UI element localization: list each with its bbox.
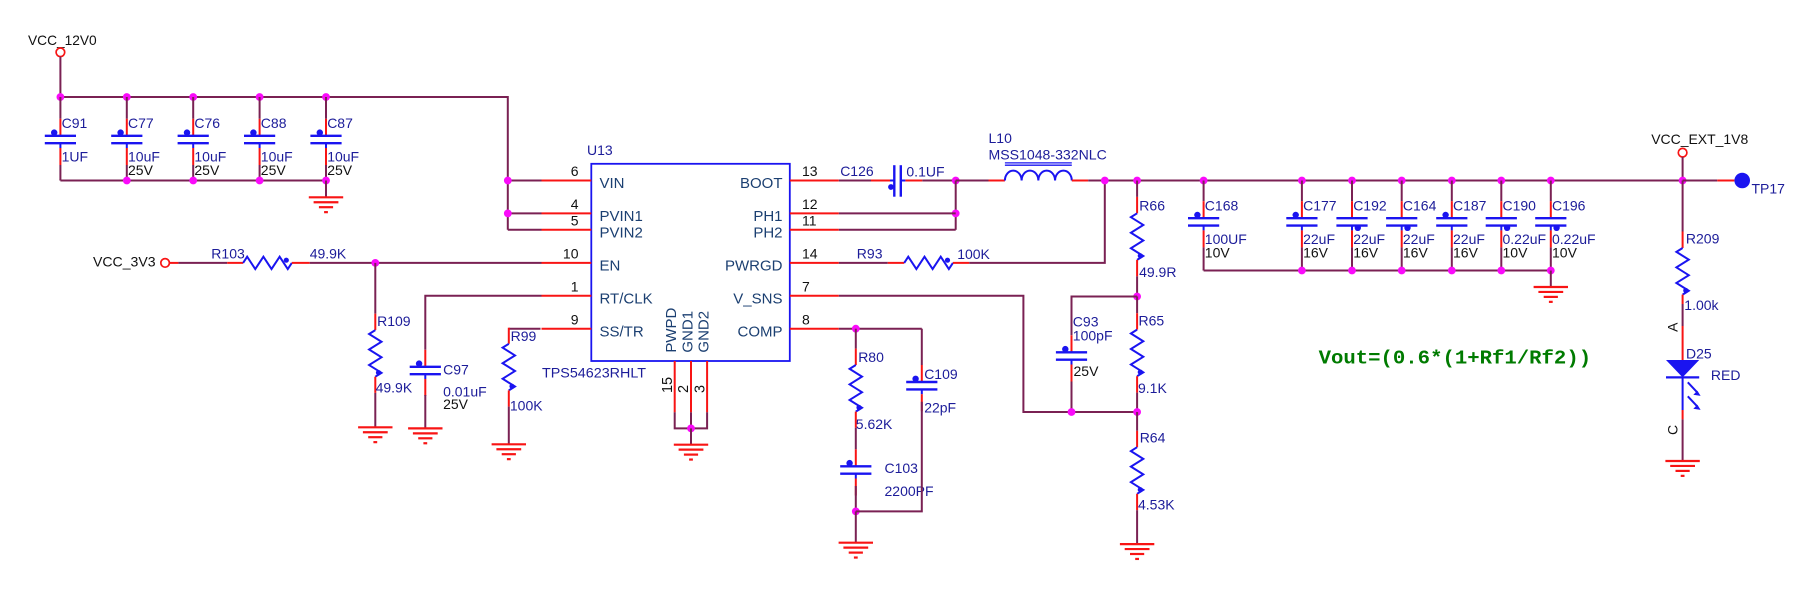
svg-text:16V: 16V	[1303, 244, 1329, 260]
wire C164 bottom lead	[1401, 247, 1403, 270]
capacitor C126 0.1UF	[871, 180, 890, 182]
junction EN node	[371, 259, 379, 267]
svg-text:6: 6	[571, 163, 579, 179]
capacitor C192	[1351, 201, 1353, 218]
svg-text:14: 14	[802, 246, 818, 262]
svg-text:12: 12	[802, 196, 818, 212]
junction C103/C109	[852, 508, 860, 516]
junction PVIN1 tap	[504, 210, 512, 218]
svg-text:9.1K: 9.1K	[1138, 380, 1167, 396]
svg-text:C103: C103	[885, 460, 919, 476]
wire COMP	[839, 328, 922, 330]
wire C87 top lead	[325, 97, 327, 119]
junction VIN tap	[504, 177, 512, 185]
resistor R209 1.00k	[1682, 181, 1684, 232]
pin 4 PVIN1	[542, 212, 592, 214]
pin 9 SS/TR	[542, 328, 592, 330]
junction bottom bus	[256, 177, 264, 185]
junction C187 top	[1448, 177, 1456, 185]
junction bottom bus	[322, 177, 330, 185]
svg-text:VCC_12V0: VCC_12V0	[28, 32, 97, 48]
svg-text:10V: 10V	[1205, 244, 1231, 260]
wire SS/TR to R99	[509, 328, 541, 330]
svg-text:GND1: GND1	[679, 311, 696, 353]
svg-text:R66: R66	[1139, 197, 1165, 213]
wire C103 to gnd node	[855, 486, 857, 511]
svg-text:49.9R: 49.9R	[1139, 264, 1176, 280]
svg-text:2200PF: 2200PF	[885, 483, 934, 499]
pin 15 PWPD	[674, 361, 676, 412]
svg-text:PVIN2: PVIN2	[600, 225, 643, 242]
wire C91 bottom lead	[59, 165, 61, 181]
wire C190 bottom lead	[1500, 247, 1502, 270]
svg-text:10: 10	[563, 246, 579, 262]
svg-text:25V: 25V	[128, 162, 154, 178]
inductor L10 MSS1048-332NLC	[989, 180, 1005, 182]
svg-text:PVIN1: PVIN1	[600, 208, 643, 225]
capacitor C164	[1401, 201, 1403, 218]
svg-text:2: 2	[676, 385, 692, 393]
wire R103 to EN	[310, 262, 542, 264]
wire to ground	[325, 181, 327, 198]
svg-text:GND2: GND2	[696, 311, 713, 353]
svg-text:25V: 25V	[1074, 363, 1100, 379]
svg-text:V_SNS: V_SNS	[733, 291, 782, 308]
svg-text:C97: C97	[443, 361, 469, 377]
svg-text:100K: 100K	[957, 246, 990, 262]
svg-text:C164: C164	[1403, 197, 1437, 213]
resistor R66 49.9R	[1136, 181, 1138, 197]
capacitor C190	[1500, 201, 1502, 218]
ground C97	[408, 427, 442, 429]
pin 10 EN	[542, 262, 592, 264]
wire top bus	[59, 96, 507, 98]
ground COMP network	[839, 542, 873, 544]
capacitor C91	[59, 119, 61, 136]
junction GND pins	[687, 425, 695, 433]
svg-text:VCC_EXT_1V8: VCC_EXT_1V8	[1651, 131, 1748, 147]
junction feedback node	[1133, 293, 1141, 301]
svg-text:C192: C192	[1353, 197, 1387, 213]
svg-text:25V: 25V	[194, 162, 220, 178]
wire V_SNS to divider	[839, 296, 1137, 412]
svg-text:C177: C177	[1303, 197, 1337, 213]
wire PH to L10	[956, 180, 989, 182]
svg-text:1: 1	[571, 278, 579, 294]
wire C91 top lead	[59, 97, 61, 119]
junction bottom bus	[123, 177, 131, 185]
resistor R109 49.9K	[374, 263, 376, 314]
svg-text:10V: 10V	[1503, 244, 1529, 260]
svg-text:R93: R93	[857, 245, 883, 261]
svg-text:R80: R80	[858, 349, 884, 365]
wire C164 top lead	[1401, 181, 1403, 202]
svg-text:PWRGD: PWRGD	[725, 258, 783, 275]
junction COMP	[852, 325, 860, 333]
svg-text:RT/CLK: RT/CLK	[600, 291, 653, 308]
capacitor C109 22pF	[921, 329, 923, 365]
wire gnd bus to ground	[1550, 271, 1552, 288]
svg-text:C190: C190	[1503, 197, 1537, 213]
wire L10 to output bus	[1088, 180, 1682, 182]
junction gnd bus	[1448, 267, 1456, 275]
junction C192 top	[1348, 177, 1356, 185]
svg-text:16V: 16V	[1403, 244, 1429, 260]
svg-text:L10: L10	[989, 130, 1013, 146]
svg-text:R65: R65	[1139, 313, 1165, 329]
junction C168 top	[1200, 177, 1208, 185]
ground U13	[674, 444, 708, 446]
junction gnd bus	[1298, 267, 1306, 275]
svg-text:15: 15	[660, 377, 676, 393]
svg-text:R99: R99	[511, 328, 537, 344]
pin 5 PVIN2	[542, 229, 592, 231]
pin 12 PH1	[790, 212, 839, 214]
svg-text:Vout=(0.6*(1+Rf1/Rf2)): Vout=(0.6*(1+Rf1/Rf2))	[1319, 348, 1592, 370]
svg-text:R64: R64	[1140, 429, 1166, 445]
wire bus down to PVIN	[507, 96, 509, 230]
capacitor C168	[1203, 201, 1205, 218]
wire R209 to D25	[1682, 304, 1684, 326]
svg-text:5.62K: 5.62K	[856, 416, 893, 432]
pin 13 BOOT	[790, 180, 839, 182]
wire C196 bottom lead	[1550, 247, 1552, 270]
pin 8 COMP	[790, 328, 839, 330]
svg-text:COMP: COMP	[738, 323, 783, 340]
wire R66 to node A	[1136, 276, 1138, 296]
wire VCC_EXT down	[1682, 157, 1684, 181]
junction VCC_EXT	[1679, 177, 1687, 185]
svg-text:R103: R103	[211, 245, 245, 261]
wire BOOT to C126	[839, 180, 871, 182]
wire C88 top lead	[259, 97, 261, 119]
op-amp U13 TPS54623RHLT body	[591, 164, 790, 361]
ground R109	[358, 426, 392, 428]
wire output cap ground bus	[1204, 270, 1551, 272]
svg-text:PH2: PH2	[753, 225, 782, 242]
wire D25 cathode	[1682, 410, 1684, 419]
svg-text:TP17: TP17	[1752, 181, 1786, 197]
pin 1 RT/CLK	[542, 295, 592, 297]
junction R66 top	[1133, 177, 1141, 185]
junction C190 top	[1497, 177, 1505, 185]
resistor R93 100K	[888, 262, 904, 264]
wire PWRGD to R93	[839, 262, 888, 264]
capacitor	[1071, 335, 1073, 352]
resistor R64 4.53K	[1136, 412, 1138, 431]
power port VCC_12V0	[56, 48, 65, 57]
svg-text:MSS1048-332NLC: MSS1048-332NLC	[989, 147, 1107, 163]
svg-text:49.9K: 49.9K	[376, 380, 413, 396]
test point TP17	[1683, 180, 1718, 182]
wire C87 bottom lead	[325, 165, 327, 181]
pin 11 PH2	[790, 229, 839, 231]
pin 7 V_SNS	[790, 295, 839, 297]
resistor R80 5.62K	[855, 329, 857, 349]
resistor R99 100K	[508, 328, 510, 344]
svg-text:49.9K: 49.9K	[310, 246, 347, 262]
wire C76 top lead	[192, 97, 194, 119]
svg-text:4.53K: 4.53K	[1138, 496, 1175, 512]
svg-text:D25: D25	[1686, 345, 1712, 361]
power port VCC_EXT_1V8	[1678, 148, 1687, 157]
svg-text:C109: C109	[924, 366, 958, 382]
wire R64 to ground	[1136, 510, 1138, 544]
wire C187 top lead	[1451, 181, 1453, 202]
junction top bus	[189, 93, 197, 101]
svg-text:10V: 10V	[1552, 244, 1578, 260]
capacitor C196	[1550, 201, 1552, 218]
junction R93 pullup	[1101, 177, 1109, 185]
wire C168 bottom lead	[1203, 247, 1205, 270]
svg-text:TPS54623RHLT: TPS54623RHLT	[542, 364, 646, 380]
svg-text:8: 8	[802, 311, 810, 327]
ground R64	[1120, 543, 1154, 545]
svg-text:C88: C88	[261, 115, 287, 131]
svg-text:3: 3	[692, 385, 708, 393]
junction R64 top	[1133, 408, 1141, 416]
wire VCC_12V0 down	[59, 57, 61, 97]
wire to PVIN2 pin	[508, 229, 542, 231]
pin 14 PWRGD	[790, 262, 839, 264]
wire PH vertical	[955, 181, 957, 230]
wire C192 top lead	[1351, 181, 1353, 202]
wire C177 top lead	[1301, 181, 1303, 202]
svg-text:R109: R109	[377, 313, 411, 329]
capacitor	[424, 350, 426, 367]
svg-text:25V: 25V	[443, 396, 469, 412]
junction top bus	[123, 93, 131, 101]
wire C177 bottom lead	[1301, 247, 1303, 270]
wire C109 down	[856, 402, 922, 512]
svg-text:100K: 100K	[510, 397, 543, 413]
wire VCC_3V3 to R103	[169, 262, 178, 264]
wire R65 to bottom row	[1136, 393, 1138, 412]
LED D25 RED	[1666, 360, 1699, 377]
junction PH node top	[952, 177, 960, 185]
junction PH1	[952, 210, 960, 218]
svg-text:4: 4	[571, 196, 579, 212]
wire C187 bottom lead	[1451, 247, 1453, 270]
capacitor C77	[126, 119, 128, 136]
svg-text:C187: C187	[1453, 197, 1487, 213]
svg-text:BOOT: BOOT	[740, 175, 783, 192]
ground R99	[492, 443, 526, 445]
capacitor	[921, 365, 923, 382]
wire C93 down	[1071, 382, 1073, 413]
junction C93 bottom	[1068, 408, 1076, 416]
wire GND pins join	[675, 412, 707, 428]
ground cap bank	[309, 196, 343, 198]
wire to ground	[690, 428, 692, 444]
power port VCC_3V3	[161, 259, 170, 268]
junction gnd bus	[1348, 267, 1356, 275]
svg-text:16V: 16V	[1453, 244, 1479, 260]
resistor R65 9.1K	[1136, 297, 1138, 314]
wire RT/CLK to C97	[425, 296, 541, 350]
wire C126 to PH node	[922, 180, 955, 182]
junction gnd bus	[1497, 267, 1505, 275]
svg-text:C77: C77	[128, 115, 154, 131]
capacitor C88	[259, 119, 261, 136]
wire C77 bottom lead	[126, 165, 128, 181]
svg-text:1UF: 1UF	[62, 148, 88, 164]
svg-text:13: 13	[802, 163, 818, 179]
svg-text:C87: C87	[327, 115, 353, 131]
capacitor	[855, 449, 857, 466]
capacitor C187	[1451, 201, 1453, 218]
svg-text:C: C	[1664, 425, 1680, 435]
wire C77 top lead	[126, 97, 128, 119]
svg-text:22pF: 22pF	[924, 399, 956, 415]
wire C97 to ground	[424, 395, 426, 428]
svg-text:100pF: 100pF	[1073, 328, 1113, 344]
junction top bus	[322, 93, 330, 101]
wire to ground	[855, 511, 857, 542]
svg-text:PWPD: PWPD	[663, 307, 680, 352]
svg-text:11: 11	[802, 212, 817, 228]
svg-text:RED: RED	[1711, 367, 1741, 383]
svg-text:SS/TR: SS/TR	[600, 323, 644, 340]
svg-text:A: A	[1664, 322, 1680, 332]
junction gnd bus	[1547, 267, 1555, 275]
wire R109 to ground	[374, 393, 376, 427]
wire C192 bottom lead	[1351, 247, 1353, 270]
svg-text:1.00k: 1.00k	[1684, 297, 1719, 313]
junction bottom bus	[189, 177, 197, 185]
svg-text:16V: 16V	[1353, 244, 1379, 260]
ground D25	[1665, 460, 1699, 462]
wire C168 top lead	[1203, 181, 1205, 202]
svg-text:R209: R209	[1686, 231, 1720, 247]
wire bottom cap bus	[60, 180, 326, 182]
pin 3 GND2	[706, 361, 708, 412]
wire R93 to output bus	[969, 181, 1105, 263]
capacitor C87	[325, 119, 327, 136]
svg-text:9: 9	[571, 311, 579, 327]
pin 6 VIN	[542, 180, 592, 182]
svg-text:25V: 25V	[327, 162, 353, 178]
svg-text:C168: C168	[1205, 197, 1239, 213]
wire node to C93	[1072, 297, 1138, 336]
wire C190 top lead	[1500, 181, 1502, 202]
svg-text:PH1: PH1	[753, 208, 782, 225]
wire R80 to C103	[855, 428, 857, 450]
junction top bus	[256, 93, 264, 101]
wire to PVIN1 pin	[508, 212, 542, 214]
wire PH2	[839, 229, 956, 231]
svg-text:U13: U13	[587, 142, 613, 158]
svg-text:0.1UF: 0.1UF	[906, 164, 944, 180]
junction C164 top	[1398, 177, 1406, 185]
junction C177 top	[1298, 177, 1306, 185]
svg-text:5: 5	[571, 212, 579, 228]
capacitor C76	[192, 119, 194, 136]
junction top bus	[57, 93, 65, 101]
svg-text:C91: C91	[62, 115, 88, 131]
svg-text:VIN: VIN	[600, 175, 625, 192]
wire C76 bottom lead	[192, 165, 194, 181]
wire C88 bottom lead	[259, 165, 261, 181]
svg-text:25V: 25V	[261, 162, 287, 178]
wire to VIN pin	[508, 180, 542, 182]
ground output caps	[1534, 286, 1568, 288]
svg-text:7: 7	[802, 278, 810, 294]
junction C196 top	[1547, 177, 1555, 185]
pin 2 GND1	[690, 361, 692, 412]
svg-text:C196: C196	[1552, 197, 1586, 213]
junction gnd bus	[1398, 267, 1406, 275]
capacitor C177	[1301, 201, 1303, 218]
resistor R103 49.9K	[227, 262, 243, 264]
wire C196 top lead	[1550, 181, 1552, 202]
svg-text:VCC_3V3: VCC_3V3	[93, 254, 156, 270]
svg-text:EN: EN	[600, 258, 621, 275]
svg-text:C126: C126	[840, 163, 874, 179]
svg-text:C76: C76	[194, 115, 220, 131]
wire PH1	[839, 212, 956, 214]
wire R99 to ground	[508, 407, 510, 445]
